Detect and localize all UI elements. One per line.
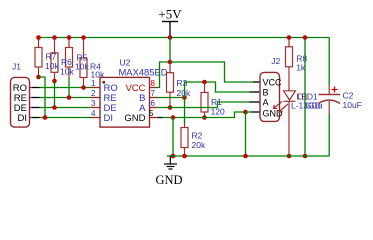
connector J1 (11, 61, 30, 127)
resistor R1 (201, 82, 225, 118)
svg-text:8: 8 (151, 79, 156, 88)
power +5V symbol (158, 7, 182, 38)
wire U2 pin 8 stub (150, 87, 158, 89)
resistor R8 (286, 38, 308, 91)
resistor R5 (66, 38, 73, 79)
wire DE net (40, 107, 91, 109)
ground symbol (155, 156, 182, 187)
node VCC-R3 junction (168, 60, 173, 65)
node J2 GND junction (243, 110, 248, 115)
wire U2 pin 2 stub (91, 97, 101, 99)
wire J2 VCC stub black (253, 81, 260, 83)
node R7-DI junction (43, 115, 48, 120)
wire R6 to DE (54, 81, 56, 108)
svg-text:10k: 10k (75, 62, 89, 72)
svg-text:5: 5 (149, 109, 154, 118)
wire U2 pin 7 stub (150, 97, 158, 99)
resistor R4 (80, 38, 87, 88)
wire GND net pin5 (158, 117, 163, 119)
svg-text:6: 6 (151, 99, 156, 108)
label R6 value (60, 57, 74, 76)
node R6 lead (52, 79, 57, 84)
svg-text:7: 7 (151, 89, 156, 98)
svg-text:R3: R3 (177, 78, 188, 88)
wire J2 B stub black (250, 91, 260, 93)
wire J2 GND stub black (251, 111, 260, 113)
wire J2 A stub black (250, 101, 260, 103)
svg-text:GND: GND (124, 113, 145, 124)
wire B net pin7 (158, 97, 185, 99)
wire A net pin6 (158, 107, 218, 109)
node R7 bottom (36, 75, 41, 80)
wire top +5V rail (39, 37, 330, 39)
resistor R7 (35, 38, 42, 78)
svg-text:10k: 10k (45, 61, 59, 71)
wire U2 pin 5 stub (150, 117, 158, 119)
resistor R3 (167, 62, 191, 108)
connector J2 (260, 56, 283, 122)
svg-text:GND: GND (155, 173, 182, 187)
node branch top (303, 35, 308, 40)
node J2 GND rail junction (243, 154, 248, 159)
node R3-A junction (168, 105, 173, 110)
label R7 value (45, 52, 59, 71)
node branch bottom (303, 154, 308, 159)
wire VCC feed to J2 (170, 62, 253, 82)
node R6-DE junction (52, 105, 57, 110)
svg-text:20k: 20k (192, 140, 206, 150)
svg-text:VCC: VCC (263, 77, 283, 87)
wire R7 to DI (39, 77, 46, 118)
node pin5 drop bottom junction (171, 154, 176, 159)
svg-text:+5V: +5V (158, 7, 182, 22)
wire U2 pin 3 stub (91, 107, 101, 109)
wire RE net (40, 97, 91, 99)
svg-text:J2: J2 (271, 56, 280, 66)
node R4-RO junction (81, 85, 86, 90)
svg-text:MAX485ED: MAX485ED (119, 67, 168, 78)
label R4 value (90, 62, 105, 80)
svg-text:1: 1 (91, 79, 96, 88)
wire VCC pin8 to rail branch (158, 62, 171, 88)
wire U2 pin 1 stub (91, 87, 101, 89)
wire GND net green (163, 112, 246, 118)
svg-text:10uF: 10uF (343, 100, 362, 110)
svg-text:DI: DI (18, 113, 28, 124)
node R1 top junction (202, 80, 207, 85)
svg-text:J1: J1 (12, 61, 21, 71)
node R6 top (52, 35, 57, 40)
node +5V rail junction (168, 35, 173, 40)
op-amp U2 MAX485ED (100, 58, 168, 128)
wire +5V branch vertical right (304, 38, 306, 157)
svg-text:3: 3 (91, 99, 96, 108)
node R1 bottom junction (202, 115, 207, 120)
wire bottom ground rail (167, 155, 329, 157)
wire A up to J2 (218, 102, 250, 108)
node R5-RE junction (67, 95, 72, 100)
wire DI net (40, 117, 91, 119)
wire B up-over to J2 (185, 82, 250, 98)
node B junction R2 (182, 95, 187, 100)
wire J2 GND drop to bottom rail (245, 112, 247, 156)
label R5 value (75, 52, 89, 71)
wire U2 pin 4 stub (91, 117, 101, 119)
wire U2 pin 6 stub (150, 107, 158, 109)
wire RO net (40, 87, 91, 89)
svg-text:C2: C2 (343, 91, 354, 101)
svg-text:B: B (263, 87, 269, 97)
svg-text:R2: R2 (192, 131, 203, 141)
svg-text:DI: DI (104, 113, 114, 124)
wire pin5 drop to bottom rail (172, 118, 174, 157)
node R8 top (287, 35, 292, 40)
svg-text:2: 2 (91, 89, 96, 98)
svg-text:10k: 10k (60, 66, 74, 76)
node R2 bottom rail junction (182, 154, 187, 159)
wire R5 to RE (68, 78, 70, 98)
resistor R6 (51, 38, 58, 82)
svg-text:4: 4 (91, 109, 96, 118)
svg-text:A: A (263, 97, 269, 107)
wire +5V drop to R3 (169, 38, 171, 63)
node R4 top (81, 35, 86, 40)
capacitor C2 (319, 38, 362, 157)
node LED cathode rail junction (287, 154, 292, 159)
LED LED1 (274, 91, 323, 156)
node GND pin5 drop (171, 115, 176, 120)
node R7 top (36, 35, 41, 40)
node R5 top (67, 35, 72, 40)
resistor R2 (181, 98, 206, 157)
wire J1 pin stubs (30, 88, 33, 118)
